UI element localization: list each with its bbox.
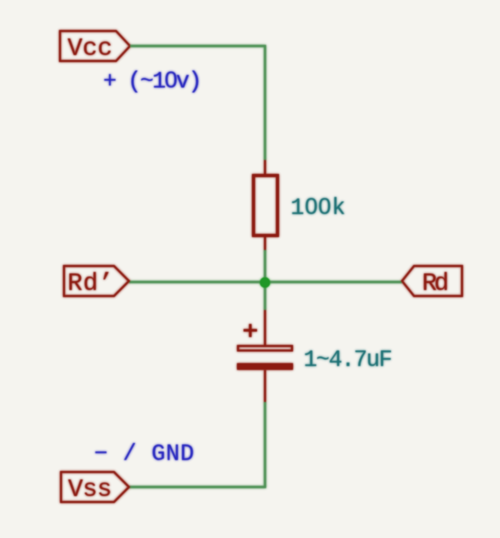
wire top corner down to resistor [264, 45, 266, 160]
global label Rd' [64, 266, 129, 298]
svg-text:1~4.7uF: 1~4.7uF [304, 347, 393, 373]
wire Rd' to junction [129, 281, 265, 283]
global label Vss [61, 472, 129, 504]
wire resistor to junction [264, 250, 266, 282]
svg-text:100k: 100k [291, 193, 346, 221]
svg-text:Vcc: Vcc [68, 34, 113, 63]
svg-text:Rd’: Rd’ [68, 269, 114, 298]
svg-text:Vss: Vss [68, 475, 112, 504]
svg-text:− / GND: − / GND [94, 441, 194, 467]
wire junction to Rd [265, 281, 402, 283]
resistor R1 [254, 160, 278, 250]
wire junction down to capacitor [264, 282, 266, 310]
svg-text:Rd: Rd [422, 269, 449, 298]
wire Vcc to top corner [130, 45, 266, 47]
capacitor C1 [237, 310, 293, 402]
global label Rd [402, 266, 462, 298]
wire bottom corner to Vss [129, 486, 266, 488]
wire capacitor to bottom corner [264, 402, 266, 487]
junction dot [260, 277, 270, 287]
global label Vcc [60, 31, 130, 63]
svg-text:+ (~10v): + (~10v) [103, 67, 202, 95]
